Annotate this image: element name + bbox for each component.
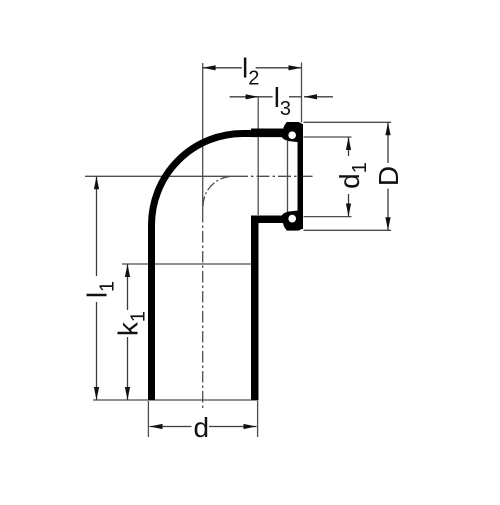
socket outer step on top wall	[251, 129, 283, 138]
socket top bead	[282, 122, 303, 142]
k1 dimension line x=127.5	[127, 264, 129, 310]
pipe bottom end line / l1 k1 extension	[93, 399, 259, 401]
pipe body outline (thick)	[152, 133, 284, 400]
svg-text:D: D	[373, 166, 404, 186]
svg-text:d: d	[194, 412, 210, 443]
d1 arrows	[346, 137, 351, 150]
D label	[373, 166, 404, 186]
socket face	[298, 124, 304, 229]
k1 top extension line	[122, 263, 251, 265]
k1 arrows	[125, 264, 130, 277]
dimension lines	[97, 68, 389, 427]
D arrows	[385, 122, 390, 135]
sealing ring bottom (white circle)	[288, 215, 296, 223]
thin lines group	[85, 63, 391, 438]
left wall + outer bend arc + top wall	[152, 134, 284, 401]
l3 dimension line y=96.8	[230, 96, 273, 98]
socket face extension for l2/l3	[301, 63, 303, 123]
arrowheads	[94, 65, 391, 429]
D dimension line x=388	[387, 122, 389, 163]
l1 label	[82, 281, 119, 298]
d arrows	[150, 424, 163, 429]
horizontal centerline / l1 extension	[85, 175, 235, 177]
sealing ring top (white circle)	[288, 131, 296, 139]
d1 dimension line x=348.5	[348, 137, 350, 156]
bend centerline arc	[203, 176, 233, 206]
d dimension line y=426.5	[150, 426, 192, 428]
d1 label	[334, 162, 371, 189]
l2 dimension line y=67.8	[203, 67, 242, 69]
vertical centerline / l2 extension	[202, 63, 204, 211]
l1 arrows	[94, 176, 99, 189]
l3 arrows (outside)	[246, 94, 259, 99]
l2 arrows	[203, 65, 216, 70]
right wall + bottom wall	[255, 219, 283, 400]
socket bottom bead	[282, 211, 303, 231]
l1 dimension line x=96.5	[96, 176, 98, 276]
k1 label	[113, 311, 150, 336]
socket shoulder line / l3 extension	[257, 97, 259, 215]
D extension lines	[304, 121, 392, 123]
d extension lines	[147, 401, 149, 437]
socket inner sleeve line	[287, 141, 289, 213]
d1 extension lines	[304, 136, 352, 138]
